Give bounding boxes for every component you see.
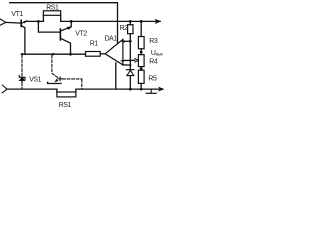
wire DA1 upper input from R2/VD node <box>123 40 130 42</box>
zener diode VS1 (reference, dashed thermal link) <box>19 55 25 88</box>
svg-text:DA1: DA1 <box>105 36 118 43</box>
resistor R5 <box>138 70 144 89</box>
wire bottom rail right <box>76 89 162 92</box>
node dot dashed branch <box>52 53 54 55</box>
wire R2 to VD <box>129 34 131 70</box>
wire VT1 emitter to RS1 <box>26 20 43 22</box>
node junction VT2 emitter on rail <box>70 20 73 23</box>
chassis ground symbol <box>146 89 156 93</box>
DA1 inverting input mark <box>120 60 124 62</box>
VT2 emitter arrowhead <box>67 26 72 30</box>
dashed link from collector bus to RS1 sensor <box>52 55 82 88</box>
svg-text:R3: R3 <box>149 38 158 45</box>
op-amp DA1 <box>105 39 123 65</box>
node junction R5 on bottom rail <box>140 88 143 91</box>
wire DA1 lower pin to VD node <box>123 64 130 66</box>
node dot left end <box>21 53 23 55</box>
arrowhead into DA1 upper input <box>121 40 125 43</box>
transistor VT1 <box>21 20 27 54</box>
wire input to VT1 base <box>6 21 21 24</box>
input terminal arrow (bottom left) <box>2 85 7 93</box>
resistor RS1 (top, series in positive rail) <box>43 11 60 22</box>
svg-text:VS1: VS1 <box>29 76 41 83</box>
svg-text:R5: R5 <box>148 76 157 83</box>
wire to VT2 base <box>38 21 60 32</box>
diode VD (reference) <box>126 70 133 89</box>
arrowhead pointing to RS1 sensor <box>54 79 58 83</box>
svg-text:VT1: VT1 <box>11 11 23 18</box>
svg-text:VT2: VT2 <box>75 31 87 38</box>
resistor R2 <box>128 21 133 33</box>
resistor R4 (adjustable) <box>138 55 144 71</box>
input terminal arrow (top left) <box>0 19 6 26</box>
wire DA1 inverting input to R4 wiper <box>123 59 135 61</box>
wire DA1 negative supply to bottom rail <box>115 63 117 89</box>
wire R1 to DA1 output <box>100 53 105 55</box>
transistor VT2 <box>60 21 71 54</box>
wire sensor tap hook <box>48 82 61 83</box>
wire positive rail to output <box>61 20 161 22</box>
node junction VD anode on bottom rail <box>129 88 132 91</box>
wire +U supply line from input to DA1 <box>10 3 118 44</box>
svg-text:RS1: RS1 <box>46 5 59 12</box>
node dot R4/R5 <box>140 67 143 70</box>
node junction R2 on rail <box>129 20 132 23</box>
resistor R3 <box>138 21 144 54</box>
node dot on VD chain <box>129 64 131 66</box>
svg-text:R1: R1 <box>90 40 99 47</box>
wire collector bus (mid line) <box>21 53 85 55</box>
node junction DA1 upper input <box>129 40 132 43</box>
output terminal arrow (top right) <box>155 19 162 24</box>
resistor RS1 (bottom, current sensor) <box>57 92 76 97</box>
node junction at VT2 base branch <box>37 20 40 23</box>
svg-text:R2: R2 <box>120 25 129 32</box>
VT1 emitter arrowhead <box>23 21 27 24</box>
output terminal arrow (bottom right) <box>158 87 165 92</box>
node dot R3/R4 (Uout tap) <box>140 51 143 54</box>
node junction R3 on rail <box>140 20 143 23</box>
resistor R1 <box>86 52 101 57</box>
wire bottom rail left <box>7 89 57 92</box>
svg-text:R4: R4 <box>149 58 158 65</box>
arrowhead R4 wiper <box>135 58 138 62</box>
node dot VT2 collector <box>69 53 72 56</box>
svg-text:RS1: RS1 <box>59 102 72 109</box>
